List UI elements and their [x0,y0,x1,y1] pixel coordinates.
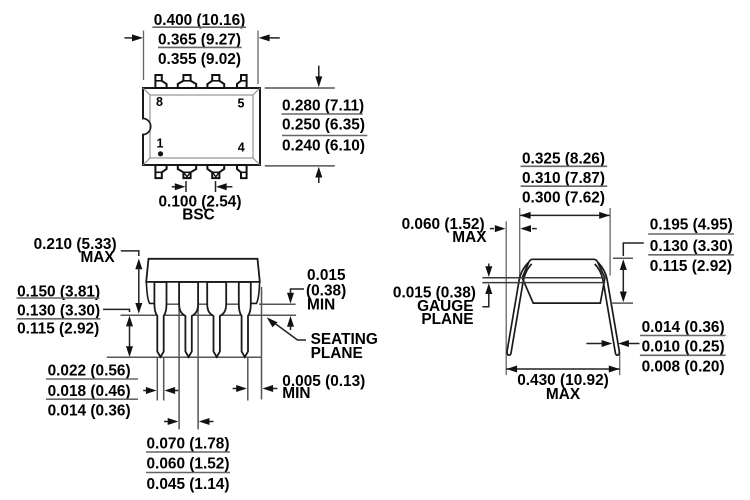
seating plane callout arrow [267,317,306,340]
svg-text:MIN: MIN [282,385,310,402]
dim text 0.150 (3.81) [17,284,101,301]
dim text BSC [182,207,215,224]
gauge plane down arrow [485,264,492,278]
dim text 0.300 (7.62) [522,189,605,206]
bottom pin 2 [178,165,196,178]
dim text 0.250 (6.35) [282,116,367,135]
dim text 0.430 (10.92) MAX [517,372,609,403]
gauge plane up arrow with foot [482,283,492,307]
pin 5 label [238,96,245,110]
dim text 0.310 (7.87) [521,170,608,187]
svg-text:0.400 (10.16): 0.400 (10.16) [154,12,246,29]
dim text 0.070 (1.78) [146,435,230,452]
0.022 arrows [143,387,178,394]
svg-text:BSC: BSC [182,207,215,224]
0.014 lead thickness arrows [586,340,639,347]
up arrow below 0.280 line [315,167,322,183]
svg-text:0.022 (0.56): 0.022 (0.56) [48,363,131,380]
lead 3 front [207,282,226,357]
dim text 0.045 (1.14) [147,476,230,493]
arrow left pointing right at 0.400 dim [124,34,143,41]
dim text 0.005 (0.13) MIN [282,373,365,402]
dim text 0.130 (3.30) [17,302,101,319]
0.195 extension lines [610,258,633,303]
svg-text:0.310 (7.87): 0.310 (7.87) [522,170,605,187]
svg-text:0.280 (7.11): 0.280 (7.11) [282,97,364,114]
lead tip line [107,356,262,358]
dim text 0.022 (0.56) [46,363,138,380]
dim text 0.060 (1.52) [146,456,230,473]
svg-text:0.018 (0.46): 0.018 (0.46) [48,383,131,400]
dim text 0.195 (4.95) [648,217,734,234]
svg-text:0.010 (0.25): 0.010 (0.25) [642,339,725,356]
0.430 right extension line [619,352,621,375]
svg-text:0.240 (6.10): 0.240 (6.10) [282,137,365,154]
arrow right pointing left at 0.400 dim [259,34,280,41]
svg-text:0.130 (3.30): 0.130 (3.30) [17,302,100,319]
dim text 0.400 (10.16) [152,12,246,29]
svg-text:0.325 (8.26): 0.325 (8.26) [522,150,605,167]
package body front view [146,259,260,304]
pin 1 index dot [158,151,163,156]
0.005 arrows [233,385,278,392]
dim text 0.130 (3.30) right [648,238,734,255]
svg-text:MIN: MIN [307,296,335,313]
dim text 0.100 (2.54) [159,194,242,211]
svg-text:1: 1 [157,136,164,150]
svg-text:0.060 (1.52): 0.060 (1.52) [147,456,230,473]
dim text 0.010 (0.25) [640,339,726,356]
text SEATING PLANE [311,331,378,362]
pitch ticks 0.100 BSC [186,181,216,192]
dim text 0.355 (9.02) [158,51,241,68]
svg-text:PLANE: PLANE [311,345,363,362]
svg-text:0.014 (0.36): 0.014 (0.36) [48,403,131,420]
top pin 5 [237,75,247,88]
dim text 0.008 (0.20) [642,359,725,376]
package body top view outer [143,88,260,165]
bottom pin 3 [207,165,224,178]
dim text 0.014 (0.36) [48,403,131,420]
pin 8 label [156,95,163,109]
top pin 6 [207,75,224,88]
0.005 extension line from body edge [261,287,263,400]
0.150 dim connector and arrows [103,309,133,357]
left lead end view [507,263,532,356]
dim text 0.280 (7.11) [282,97,365,114]
extension line right of 0.400 dim [257,31,259,85]
svg-text:0.365 (9.27): 0.365 (9.27) [158,31,241,48]
0.325 dimension line with outward arrows [520,212,610,219]
bottom pin 4 [237,165,247,178]
svg-text:4: 4 [238,140,245,154]
svg-text:0.008 (0.20): 0.008 (0.20) [642,359,725,376]
svg-text:0.195 (4.95): 0.195 (4.95) [650,217,733,234]
0.015 connector and arrows [287,289,304,330]
dim text 0.115 (2.92) [17,321,99,338]
top pin 8 [155,75,166,88]
dim text 0.240 (6.10) [282,137,365,154]
0.430 dimension line with outward arrows [506,366,620,373]
0.070 arrows [164,418,214,425]
0.325 extension lines [520,208,610,278]
right lead end view [595,263,620,356]
dim text 0.015 (0.38) MIN right of front view [306,267,346,314]
0.005 extension line from lead [247,357,249,400]
pin 4 label [238,140,245,154]
0.060 arrows [490,225,537,232]
dim text 0.325 (8.26) [521,150,608,167]
0.022 extension lines [157,357,163,400]
right dim lines for 0.280 [265,88,335,166]
0.070 extension lines [179,306,198,429]
svg-text:0.070 (1.78): 0.070 (1.78) [147,435,230,452]
svg-text:MAX: MAX [80,249,115,266]
seating plane line [121,314,297,316]
svg-text:0.045 (1.14): 0.045 (1.14) [147,476,230,493]
svg-text:0.355 (9.02): 0.355 (9.02) [158,51,241,68]
dim text 0.060 (1.52) MAX [402,216,488,246]
pin 1 label [157,136,164,150]
svg-text:MAX: MAX [452,229,487,246]
extension line left of 0.400 dim [143,31,145,81]
svg-text:0.014 (0.36): 0.014 (0.36) [642,319,725,336]
svg-text:PLANE: PLANE [421,311,473,328]
svg-text:5: 5 [238,96,245,110]
lead 1 front [154,282,166,357]
notch on left edge [141,118,150,134]
dim text 0.365 (9.27) [158,31,242,48]
package underside line [167,303,296,305]
gauge plane line [482,282,605,284]
0.210 connector and arrows [121,251,143,314]
svg-text:8: 8 [156,95,163,109]
dim text 0.018 (0.46) [46,383,138,400]
dim text 0.115 (2.92) right [650,258,732,275]
0.195 dimension arrows [620,243,644,302]
svg-text:0.250 (6.35): 0.250 (6.35) [282,116,365,133]
svg-text:0.015: 0.015 [307,267,346,284]
svg-text:0.130 (3.30): 0.130 (3.30) [650,238,733,255]
svg-text:0.115 (2.92): 0.115 (2.92) [17,321,99,338]
package body top view inner bevel [143,88,260,165]
lead 4 front [239,282,251,357]
down arrow above 0.280 line [315,66,322,88]
seam line [482,277,605,279]
lead 2 front [179,282,198,357]
svg-text:MAX: MAX [546,386,581,403]
0.430 left extension line [505,221,507,375]
bottom pin 1 [155,165,166,178]
arrow pointing left toward right tick [216,183,232,190]
dim text 0.015 (0.38) GAUGE PLANE [393,284,476,328]
dim text 0.210 (5.33) MAX [34,236,117,266]
svg-text:0.115 (2.92): 0.115 (2.92) [650,258,732,275]
dim text 0.014 (0.36) [640,319,726,336]
top pin 7 [178,75,196,88]
svg-text:0.300 (7.62): 0.300 (7.62) [522,189,605,206]
arrow pointing right toward left tick [172,183,186,190]
package body end view [522,259,605,303]
